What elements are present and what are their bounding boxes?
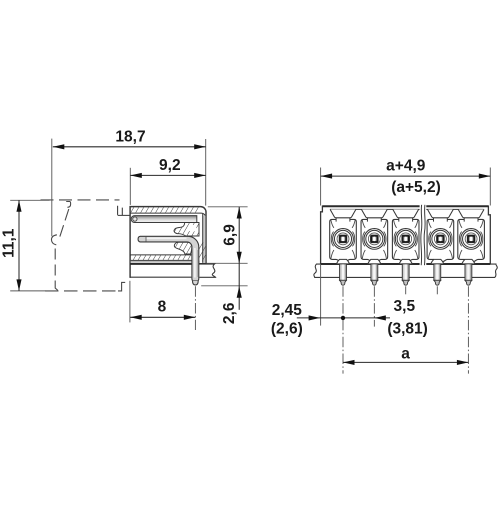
bottom wall hatched xyxy=(131,255,192,260)
svg-text:8: 8 xyxy=(158,299,167,316)
top wall hatched xyxy=(131,207,199,212)
phantom mating plug outline (dashed) xyxy=(41,200,126,291)
svg-text:(2,6): (2,6) xyxy=(271,320,303,337)
svg-text:a+4,9: a+4,9 xyxy=(386,157,426,174)
contact chamber 3 xyxy=(392,209,419,262)
upper contact rail (rod) xyxy=(131,216,197,223)
pin centerline, side view xyxy=(194,286,196,330)
dimension a xyxy=(343,345,468,365)
solder pin 2, front view xyxy=(368,259,381,285)
svg-text:a: a xyxy=(401,345,410,362)
dimension a+4,9 / (a+5,2) xyxy=(321,157,491,196)
front lip bottom edge xyxy=(130,276,191,278)
break lines through body xyxy=(420,204,427,265)
pin centerlines, front view xyxy=(343,286,468,373)
solder pin 1, front view xyxy=(336,259,349,285)
solder pin 4, front view xyxy=(431,259,444,285)
solder pin 3, front view xyxy=(399,259,412,285)
dimension 9,2 xyxy=(130,157,205,178)
svg-text:3,5: 3,5 xyxy=(394,298,416,315)
body bottom thick line xyxy=(130,263,206,265)
contact chamber 4 xyxy=(427,209,454,262)
contact chamber 1 xyxy=(330,209,357,262)
dimension 18,7 xyxy=(53,128,206,149)
right-angle solder pin, side view xyxy=(138,236,199,285)
dimension 6,9 xyxy=(222,207,242,263)
header body outline, front view xyxy=(321,206,491,263)
body bottom thick line, front view xyxy=(321,263,491,265)
svg-text:2,45: 2,45 xyxy=(272,302,303,319)
contact chamber 5 xyxy=(458,209,485,262)
dimension 11,1 xyxy=(1,200,22,291)
dimension 8 xyxy=(130,299,195,320)
latch hook on body front xyxy=(118,206,130,216)
dimension 2,45 / (2,6) xyxy=(271,302,390,338)
dimension 3,5 / (3,81) xyxy=(387,298,428,338)
svg-text:6,9: 6,9 xyxy=(222,224,239,246)
solder pin 5, front view xyxy=(462,259,475,285)
inner right wall and shadow xyxy=(203,216,206,264)
PCB strip, front view xyxy=(314,264,498,277)
svg-text:18,7: 18,7 xyxy=(115,128,145,145)
gray sill band xyxy=(131,261,200,263)
svg-text:(a+5,2): (a+5,2) xyxy=(391,179,441,196)
extension lines, side view xyxy=(10,139,247,323)
svg-text:2,6: 2,6 xyxy=(221,302,238,324)
PCB cross-section, side view xyxy=(199,264,215,277)
molded cavity hook, lower (hatched) xyxy=(174,242,192,254)
dimension 2,6 xyxy=(221,263,242,324)
contact chamber 2 xyxy=(361,209,388,262)
svg-text:(3,81): (3,81) xyxy=(387,320,428,337)
extension lines, front view xyxy=(321,168,491,326)
header body outline, side view xyxy=(130,207,206,278)
molded cavity hook, upper (hatched) xyxy=(174,223,199,237)
svg-text:9,2: 9,2 xyxy=(159,157,181,174)
right cavity hatched wedge xyxy=(199,242,205,260)
svg-text:11,1: 11,1 xyxy=(1,228,18,258)
funnel rail line xyxy=(330,208,484,210)
